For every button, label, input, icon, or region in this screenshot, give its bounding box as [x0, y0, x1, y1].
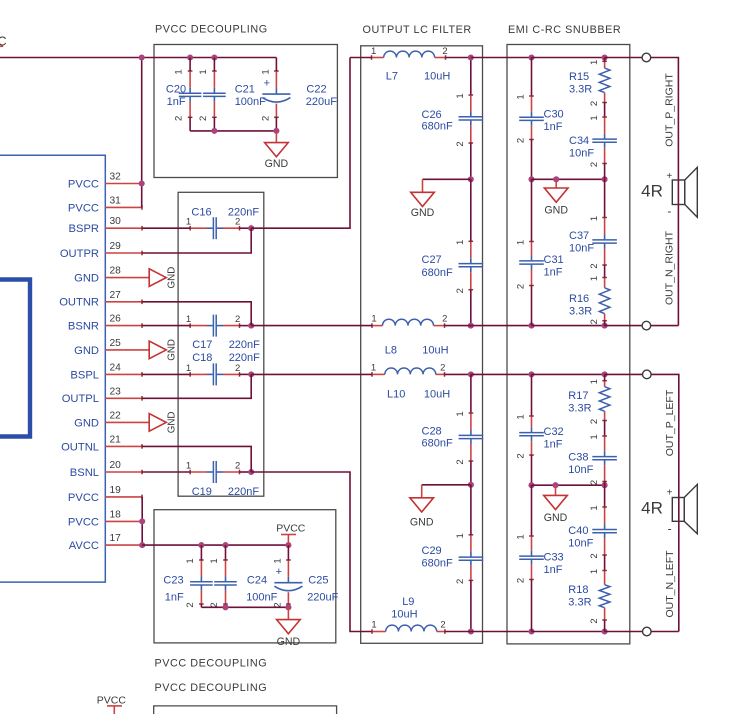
box PVCC decoupling (top) — [154, 45, 337, 178]
junction C17 pin2 / OUTNR — [248, 323, 254, 329]
svg-text:220nF: 220nF — [228, 486, 259, 498]
svg-text:1: 1 — [209, 558, 220, 563]
svg-text:2: 2 — [589, 162, 600, 167]
wire C18 to junction — [240, 373, 252, 375]
svg-text:L9: L9 — [402, 596, 414, 608]
wire C31 to row2 — [531, 286, 533, 326]
wire BSPR pin30 to C16 — [142, 227, 190, 229]
wire C22 top lead — [275, 58, 277, 72]
junction C30 top — [528, 54, 534, 60]
wire BSNL pin20 to C19 — [142, 471, 190, 473]
wire R17 to C38 — [604, 421, 606, 437]
wire C38 to mid — [604, 482, 606, 486]
wire row4 L9 to C29 — [445, 631, 471, 633]
svg-text:C28: C28 — [422, 426, 442, 438]
svg-text:220nF: 220nF — [228, 207, 259, 219]
capacitor C23 — [163, 558, 212, 607]
svg-text:+: + — [666, 171, 672, 182]
wire C25 top lead — [287, 545, 289, 560]
pin 24 (BSPL) — [70, 362, 142, 381]
wire row3 EMI span — [532, 373, 605, 375]
svg-text:OUT_P_RIGHT: OUT_P_RIGHT — [664, 73, 676, 147]
junction C18 pin2 / OUTPL — [248, 371, 254, 377]
svg-text:GND: GND — [265, 158, 289, 170]
svg-text:2: 2 — [442, 313, 447, 324]
svg-text:2: 2 — [455, 459, 466, 464]
wire mid junction to C29 — [470, 485, 472, 535]
svg-text:1nF: 1nF — [167, 96, 186, 108]
wire PVCC drop to pins 32/31 — [141, 58, 143, 208]
svg-text:1: 1 — [371, 46, 376, 57]
capacitor C24 — [209, 558, 278, 607]
wire row2 L8 to C27 — [445, 325, 471, 327]
junction C31 bottom — [528, 323, 534, 329]
wire LC gnd tap (left ch) — [422, 484, 471, 486]
terminal OUT_N_LEFT — [643, 627, 652, 636]
svg-text:+: + — [667, 488, 673, 499]
junction EMI mid left (left ch) — [528, 482, 534, 488]
svg-text:4R: 4R — [641, 499, 663, 518]
wire row1 terminal to speaker — [651, 58, 679, 326]
svg-text:R17: R17 — [568, 390, 588, 402]
svg-text:10uH: 10uH — [391, 608, 417, 620]
capacitor C32 — [516, 414, 564, 458]
svg-text:1: 1 — [186, 363, 191, 374]
svg-text:OUTPUT LC FILTER: OUTPUT LC FILTER — [363, 24, 472, 36]
wire C33 to row4 — [531, 580, 533, 632]
junction C32 top — [528, 371, 534, 377]
junction R17 top — [602, 371, 608, 377]
junction EMI mid right (left ch) — [602, 482, 608, 488]
junction C28 top — [468, 371, 474, 377]
wire row2 junction to L8 — [251, 325, 372, 327]
svg-text:L8: L8 — [385, 344, 397, 356]
svg-text:1: 1 — [589, 216, 600, 221]
svg-text:PVCC: PVCC — [68, 516, 99, 528]
pin 25 (GND) — [74, 338, 178, 361]
box bootstrap caps C16-C19 — [178, 192, 264, 496]
ground LC filter left ch — [410, 485, 434, 529]
svg-text:2: 2 — [260, 116, 271, 121]
junction pin 17 — [139, 542, 145, 548]
svg-text:680nF: 680nF — [422, 438, 453, 450]
capacitor C38 — [568, 434, 617, 485]
wire C24 top lead — [225, 545, 227, 560]
box PVCC/AVCC decoupling (bottom) — [154, 510, 336, 643]
wire C26 to mid junction — [470, 143, 472, 179]
svg-text:10uH: 10uH — [424, 389, 450, 401]
svg-text:GND: GND — [74, 345, 99, 357]
pin 32 (PVCC) — [68, 172, 142, 191]
ground LC filter right ch — [411, 179, 435, 219]
wire PVCC rail — [0, 57, 276, 59]
junction PVCC rail / drop — [139, 54, 145, 60]
capacitor C18 — [186, 352, 260, 385]
svg-text:PVCC: PVCC — [68, 202, 99, 214]
inductor L10 — [371, 362, 450, 400]
junction C29 bottom — [468, 628, 474, 634]
svg-text:+: + — [276, 566, 282, 578]
wire C21 top lead — [213, 58, 215, 72]
svg-text:1nF: 1nF — [544, 564, 563, 576]
junction LC mid (right ch) — [468, 176, 474, 182]
svg-text:100nF: 100nF — [246, 592, 277, 604]
svg-text:OUT_N_LEFT: OUT_N_LEFT — [664, 550, 676, 618]
svg-text:C23: C23 — [163, 575, 183, 587]
wire EMI mid row (left ch) — [532, 484, 605, 486]
svg-text:PVCC DECOUPLING: PVCC DECOUPLING — [155, 24, 268, 36]
junction LC mid (left ch) — [468, 482, 474, 488]
svg-text:L7: L7 — [386, 71, 398, 83]
capacitor C29 — [422, 533, 484, 584]
wire row1 L7 to C26 — [446, 57, 471, 59]
svg-text:OUTNL: OUTNL — [61, 441, 99, 453]
junction C24 bottom — [222, 604, 228, 610]
wire R15 top — [604, 58, 606, 62]
svg-text:C29: C29 — [422, 545, 442, 557]
svg-text:27: 27 — [110, 290, 122, 301]
junction C33 bottom — [528, 628, 534, 634]
svg-text:C26: C26 — [422, 109, 442, 121]
net label PVCC (bottom left) — [97, 695, 127, 714]
svg-text:3.3R: 3.3R — [569, 306, 592, 318]
capacitor C20 — [166, 69, 202, 121]
wire row3 terminal to speaker — [651, 374, 679, 631]
wire row1 to EMI — [471, 57, 532, 59]
junction EMI mid left (right ch) — [528, 176, 534, 182]
speaker LS left (4R) — [641, 484, 697, 535]
svg-text:2: 2 — [455, 288, 466, 293]
wire C31 top lead — [531, 179, 533, 241]
wire row1 EMI span — [532, 57, 605, 59]
wire OUTPR pin29 — [142, 228, 251, 253]
wire row1 to terminal — [605, 57, 643, 59]
IC body outline — [0, 155, 105, 582]
wire row4 terminal to speaker — [651, 631, 679, 633]
svg-text:10uH: 10uH — [424, 71, 450, 83]
svg-text:1: 1 — [198, 69, 209, 74]
svg-text:20: 20 — [110, 460, 122, 471]
capacitor C26 — [422, 93, 484, 146]
svg-text:17: 17 — [110, 533, 122, 544]
wire row3 junction to L10 — [251, 373, 372, 375]
svg-text:OUTPR: OUTPR — [60, 248, 99, 260]
wire pins 19/18 drop — [141, 497, 143, 545]
junction C22 bottom — [273, 128, 279, 134]
junction R15 top — [602, 54, 608, 60]
svg-text:GND: GND — [410, 516, 434, 528]
pin 18 (PVCC) — [68, 509, 142, 528]
svg-text:220nF: 220nF — [229, 352, 260, 364]
svg-text:1nF: 1nF — [165, 592, 184, 604]
wire row2 EMI span — [532, 325, 605, 327]
svg-text:2: 2 — [589, 263, 600, 268]
wire OUTPR riser — [251, 58, 350, 229]
capacitor C17 — [186, 314, 260, 351]
svg-text:10nF: 10nF — [569, 148, 594, 160]
junction C24 top — [222, 542, 228, 548]
resistor R15 — [569, 60, 610, 106]
svg-text:GND: GND — [167, 267, 178, 289]
capacitor C27 — [422, 240, 484, 294]
svg-text:GND: GND — [74, 273, 99, 285]
pin 29 (OUTPR) — [60, 241, 142, 260]
svg-text:OUTPL: OUTPL — [62, 393, 99, 405]
svg-text:4R: 4R — [641, 182, 663, 201]
svg-text:1: 1 — [185, 558, 196, 563]
svg-text:C40: C40 — [568, 525, 588, 537]
svg-text:C32: C32 — [544, 426, 564, 438]
svg-text:1: 1 — [589, 569, 600, 574]
svg-text:1: 1 — [186, 460, 191, 471]
wire C20 top lead — [189, 58, 191, 72]
svg-text:2: 2 — [589, 480, 600, 485]
svg-text:1nF: 1nF — [544, 266, 563, 278]
junction C16 pin2 / OUTPR — [248, 225, 254, 231]
svg-text:2: 2 — [442, 46, 447, 57]
wire C25 lead to bottom bus — [287, 604, 289, 607]
capacitor C40 — [568, 505, 617, 558]
junction pin 32 — [139, 180, 145, 186]
svg-text:29: 29 — [110, 241, 122, 252]
svg-text:18: 18 — [110, 509, 122, 520]
svg-text:3.3R: 3.3R — [568, 403, 591, 415]
svg-text:22: 22 — [110, 410, 122, 421]
svg-text:R15: R15 — [569, 71, 589, 83]
junction C21 — [211, 54, 217, 60]
resistor R17 — [568, 379, 610, 424]
svg-text:2: 2 — [516, 453, 527, 458]
wire R15 to C34 — [604, 103, 606, 118]
svg-text:19: 19 — [110, 485, 122, 496]
svg-text:23: 23 — [110, 386, 122, 397]
svg-text:R16: R16 — [569, 293, 589, 305]
svg-text:GND: GND — [411, 207, 435, 219]
svg-text:BSPL: BSPL — [70, 369, 99, 381]
pin 31 (PVCC) — [68, 195, 142, 214]
svg-text:10nF: 10nF — [568, 538, 593, 550]
svg-text:C25: C25 — [308, 575, 328, 587]
ground EMI left ch — [544, 485, 568, 524]
svg-text:C21: C21 — [235, 84, 255, 96]
wire C27 to row2 — [470, 290, 472, 326]
svg-text:R18: R18 — [568, 584, 588, 596]
svg-text:10nF: 10nF — [568, 464, 593, 476]
svg-text:1: 1 — [371, 362, 376, 373]
svg-text:GND: GND — [544, 205, 568, 217]
wire row4 EMI span — [532, 631, 605, 633]
svg-text:C17: C17 — [192, 339, 212, 351]
svg-text:C16: C16 — [191, 207, 211, 219]
capacitor C22 — [260, 69, 337, 121]
terminal OUT_P_LEFT — [643, 370, 652, 379]
wire C28 top lead — [470, 374, 472, 413]
wire AVCC rail — [142, 544, 288, 546]
svg-text:2: 2 — [516, 284, 527, 289]
wire OUTNL pin21 — [142, 446, 251, 472]
wire top box bottom bus — [190, 130, 276, 132]
wire C17 to junction — [240, 325, 252, 327]
svg-text:2: 2 — [185, 602, 196, 607]
inductor L8 — [371, 313, 448, 356]
svg-text:1: 1 — [589, 115, 600, 120]
pin 26 (BSNR) — [68, 314, 142, 333]
svg-text:PVCC: PVCC — [97, 695, 127, 707]
svg-text:30: 30 — [110, 216, 122, 227]
svg-text:2: 2 — [235, 460, 240, 471]
net label PVCC (bottom box) — [276, 523, 306, 546]
capacitor C31 — [516, 240, 564, 289]
pin 17 (AVCC) — [69, 533, 142, 552]
capacitor C34 — [569, 115, 617, 167]
wire C20 lead to bottom bus — [189, 117, 191, 131]
wire C32 to mid — [531, 455, 533, 485]
svg-text:1: 1 — [186, 217, 191, 228]
svg-text:1: 1 — [589, 379, 600, 384]
net label PVCC (clipped at edge) — [0, 34, 7, 48]
svg-text:680nF: 680nF — [422, 558, 453, 570]
wire C30 to mid — [531, 140, 533, 180]
wire R16 bottom — [604, 321, 606, 326]
wire C40 to R18 — [604, 555, 606, 571]
wire OUTPL pin23 — [142, 374, 251, 398]
box EMI C-RC SNUBBER — [507, 45, 630, 644]
box bottom partial — [154, 706, 337, 714]
svg-text:GND: GND — [167, 339, 178, 361]
terminal OUT_N_RIGHT — [642, 321, 651, 330]
junction EMI gnd tap (left ch) — [552, 482, 558, 488]
ground top box — [265, 131, 289, 170]
svg-text:PVCC DECOUPLING: PVCC DECOUPLING — [155, 658, 268, 670]
wire BSPL pin24 to C18 — [142, 373, 190, 375]
wire C24 lead to bottom bus — [225, 604, 227, 607]
wire R17 top — [604, 374, 606, 380]
svg-text:2: 2 — [455, 141, 466, 146]
svg-text:2: 2 — [440, 362, 445, 373]
svg-text:C22: C22 — [306, 84, 326, 96]
svg-text:10uH: 10uH — [422, 344, 448, 356]
resistor R16 — [569, 276, 610, 324]
speaker LS right (4R) — [641, 167, 697, 218]
wire row2 to terminal — [605, 325, 643, 327]
svg-text:C20: C20 — [166, 84, 186, 96]
pin 19 (PVCC) — [68, 485, 142, 504]
wire row4 to terminal — [605, 631, 643, 633]
junction EMI mid right (right ch) — [602, 176, 608, 182]
svg-text:1: 1 — [371, 313, 376, 324]
wire C22 bottom lead — [275, 117, 277, 131]
pin 28 (GND) — [74, 266, 178, 289]
svg-text:3.3R: 3.3R — [568, 597, 591, 609]
wire C37 top lead — [604, 179, 606, 217]
svg-text:1: 1 — [455, 93, 466, 98]
wire C26 top lead — [470, 58, 472, 96]
wire C28 to mid junction — [470, 461, 472, 485]
wire row3 to EMI — [471, 373, 532, 375]
wire EMI mid row (right ch) — [532, 178, 605, 180]
svg-text:1: 1 — [516, 240, 527, 245]
svg-text:1: 1 — [589, 60, 600, 65]
svg-text:+: + — [264, 78, 270, 90]
svg-text:680nF: 680nF — [422, 267, 453, 279]
svg-text:EMI C-RC SNUBBER: EMI C-RC SNUBBER — [508, 24, 621, 36]
svg-text:1: 1 — [589, 505, 600, 510]
svg-text:2: 2 — [455, 579, 466, 584]
svg-text:10nF: 10nF — [569, 243, 594, 255]
wire OUTNL riser to L9 row — [251, 472, 372, 632]
wire C29 to row4 — [470, 580, 472, 631]
svg-text:2: 2 — [235, 363, 240, 374]
resistor R18 — [568, 569, 610, 624]
capacitor C37 — [569, 216, 617, 269]
svg-text:2: 2 — [198, 116, 209, 121]
svg-text:1: 1 — [516, 414, 527, 419]
junction EMI gnd tap (right ch) — [553, 176, 559, 182]
svg-text:1nF: 1nF — [544, 121, 563, 133]
junction R16 bottom — [602, 323, 608, 329]
svg-text:OUT_N_RIGHT: OUT_N_RIGHT — [664, 230, 676, 305]
svg-text:3.3R: 3.3R — [569, 84, 592, 96]
svg-text:2: 2 — [516, 138, 527, 143]
svg-text:26: 26 — [110, 314, 122, 325]
wire C23 top lead — [200, 545, 202, 560]
svg-text:C33: C33 — [544, 552, 564, 564]
svg-text:L10: L10 — [387, 389, 405, 401]
wire row4 to EMI — [471, 631, 532, 633]
capacitor C19 — [186, 460, 260, 498]
junction C21 bottom — [211, 128, 217, 134]
svg-text:-: - — [667, 204, 671, 218]
wire C30 top lead — [531, 58, 533, 97]
wire C37 to R16 — [604, 265, 606, 278]
svg-text:C37: C37 — [569, 230, 589, 242]
junction C25 top — [285, 542, 291, 548]
junction C27 bottom — [468, 323, 474, 329]
junction R18 bottom — [602, 628, 608, 634]
svg-text:OUTNR: OUTNR — [59, 297, 99, 309]
svg-text:2: 2 — [589, 419, 600, 424]
svg-text:1: 1 — [455, 411, 466, 416]
svg-text:2: 2 — [589, 101, 600, 106]
svg-text:AVCC: AVCC — [69, 540, 99, 552]
capacitor C33 — [516, 534, 564, 583]
junction C25 bottom — [285, 604, 291, 610]
wire row3 L10 to C28 — [445, 373, 471, 375]
wire row2 terminal to speaker — [651, 325, 679, 327]
pin 23 (OUTPL) — [62, 386, 142, 405]
svg-text:2: 2 — [174, 116, 185, 121]
wire R18 bottom — [604, 620, 606, 632]
wire bottom box bus — [201, 606, 288, 608]
pin 22 (GND) — [74, 410, 178, 433]
svg-text:100nF: 100nF — [235, 96, 266, 108]
svg-text:1: 1 — [371, 619, 376, 630]
pin 20 (BSNL) — [70, 460, 142, 479]
svg-text:GND: GND — [544, 512, 568, 524]
svg-text:BSNL: BSNL — [70, 467, 99, 479]
svg-text:1: 1 — [272, 558, 283, 563]
wire C40 top lead — [604, 485, 606, 507]
capacitor C30 — [516, 94, 564, 143]
wire row2 to EMI — [471, 325, 532, 327]
svg-text:1: 1 — [455, 240, 466, 245]
svg-text:220nF: 220nF — [229, 339, 260, 351]
capacitor C16 — [186, 207, 260, 240]
svg-text:PVCC: PVCC — [276, 523, 306, 535]
wire row3 to terminal — [605, 373, 643, 375]
svg-text:-: - — [668, 522, 672, 536]
svg-text:C18: C18 — [192, 352, 212, 364]
